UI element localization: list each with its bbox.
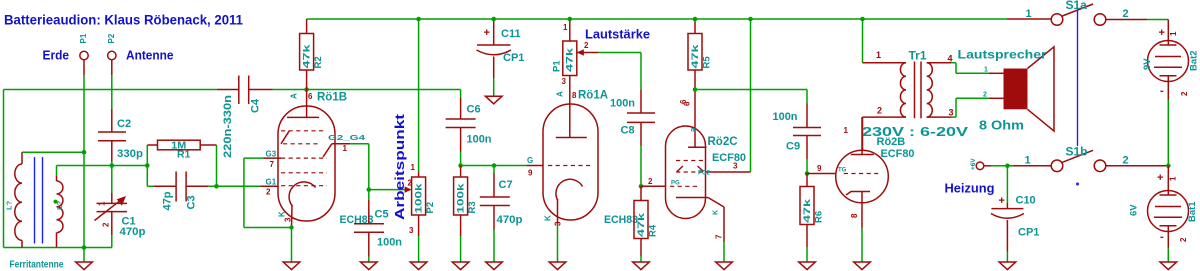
- svg-text:C5: C5: [375, 209, 389, 221]
- wire ground rail top-left: [4, 89, 217, 91]
- svg-text:1: 1: [844, 126, 849, 135]
- svg-text:7: 7: [270, 160, 275, 169]
- svg-text:K: K: [278, 211, 287, 217]
- wire Tr1 to speaker top: [951, 63, 989, 74]
- svg-text:1: 1: [876, 50, 881, 60]
- svg-text:1: 1: [1169, 176, 1178, 181]
- svg-text:7: 7: [715, 234, 724, 239]
- svg-text:3: 3: [554, 221, 563, 226]
- svg-text:1: 1: [563, 23, 568, 32]
- svg-text:K: K: [713, 210, 720, 215]
- svg-text:ECH83: ECH83: [604, 214, 638, 226]
- svg-text:S1b: S1b: [1066, 145, 1088, 159]
- svg-text:Bat2: Bat2: [1189, 50, 1200, 71]
- node junction rail/arbeitspunkt: [416, 17, 421, 22]
- svg-text:9: 9: [528, 169, 533, 178]
- node junction g2 rail: [748, 17, 753, 22]
- wire rail to Tr1: [862, 19, 864, 63]
- svg-text:1: 1: [1169, 31, 1178, 36]
- ground R4: [633, 262, 650, 270]
- node junction R1/tank: [145, 163, 150, 168]
- svg-text:100k: 100k: [456, 182, 467, 213]
- node junction wiper/C5: [367, 187, 372, 192]
- capacitor C6: [446, 98, 492, 166]
- tube Rö1A (ECH83 triode): [527, 76, 639, 263]
- svg-text:9V: 9V: [1142, 58, 1153, 70]
- node junction C6/R3: [458, 163, 463, 168]
- svg-text:A: A: [556, 91, 565, 97]
- svg-text:3: 3: [284, 217, 293, 222]
- svg-text:a: a: [689, 127, 698, 132]
- svg-text:47k: 47k: [690, 43, 701, 68]
- potentiometer P2: [405, 163, 436, 262]
- node junction R5 rail: [693, 17, 698, 22]
- svg-text:Ferritantenne: Ferritantenne: [10, 260, 64, 271]
- svg-text:G: G: [527, 156, 533, 165]
- capacitor C10: [991, 166, 1040, 262]
- wire C4 to anode node: [273, 89, 307, 91]
- svg-text:2: 2: [266, 187, 271, 196]
- wire to G1: [217, 185, 262, 187]
- ground Rö1B cathode: [283, 262, 300, 270]
- port P1 (Erde): [79, 33, 88, 75]
- transformer Tr1: [862, 49, 969, 151]
- svg-text:PG: PG: [671, 181, 680, 187]
- capacitor C4: [217, 76, 273, 159]
- ground Rö2C cathode: [716, 262, 733, 270]
- svg-text:Lautsprecher: Lautsprecher: [958, 48, 1047, 62]
- svg-text:+: +: [999, 195, 1005, 207]
- svg-text:2: 2: [877, 106, 882, 116]
- svg-text:8 Ohm: 8 Ohm: [979, 119, 1024, 133]
- switch S1a: [1007, 0, 1147, 25]
- tube Rö2B (ECF80 triode): [807, 117, 915, 262]
- svg-text:2: 2: [648, 177, 653, 186]
- svg-text:330p: 330p: [117, 148, 143, 160]
- svg-text:2: 2: [584, 41, 589, 50]
- wire anode rail to C6: [307, 89, 461, 91]
- capacitor C2: [98, 75, 143, 166]
- resistor R3: [454, 166, 478, 263]
- svg-text:C4: C4: [250, 98, 262, 113]
- ground P2: [410, 262, 427, 270]
- svg-text:+6V: +6V: [970, 158, 977, 170]
- svg-text:230V : 6-20V: 230V : 6-20V: [862, 125, 969, 139]
- svg-text:1: 1: [343, 144, 348, 153]
- node junction C2/C1: [110, 163, 115, 168]
- svg-text:CP1: CP1: [503, 52, 524, 64]
- svg-text:100n: 100n: [377, 237, 402, 249]
- svg-text:47k: 47k: [302, 43, 313, 68]
- svg-text:100n: 100n: [773, 111, 798, 123]
- node junction C3/G1 wire: [214, 184, 219, 189]
- svg-text:Antenne: Antenne: [126, 48, 174, 63]
- svg-text:C2: C2: [117, 118, 131, 130]
- svg-text:Lautstärke: Lautstärke: [585, 28, 650, 42]
- svg-text:1: 1: [1026, 8, 1032, 20]
- wire heater row: [992, 165, 1051, 167]
- svg-text:-: -: [1160, 85, 1164, 97]
- wire Tr1 to speaker bottom: [951, 98, 989, 117]
- svg-text:2: 2: [1123, 8, 1129, 20]
- node junction C10/heater: [1005, 164, 1010, 169]
- svg-text:6: 6: [679, 99, 688, 104]
- svg-text:3: 3: [562, 77, 567, 86]
- svg-text:-: -: [1160, 231, 1164, 243]
- svg-text:C6: C6: [467, 104, 481, 116]
- svg-text:Batterieaudion: Klaus Röbenack: Batterieaudion: Klaus Röbenack, 2011: [4, 13, 243, 28]
- svg-text:Bat1: Bat1: [1187, 201, 1198, 222]
- svg-text:2: 2: [1180, 91, 1189, 96]
- battery Bat1: [1129, 166, 1199, 262]
- svg-text:ECF80: ECF80: [881, 148, 915, 160]
- svg-text:G3: G3: [266, 150, 277, 159]
- wire top rail: [307, 18, 1007, 20]
- svg-text:6V: 6V: [1129, 204, 1140, 216]
- svg-text:A: A: [290, 93, 299, 99]
- svg-text:C10: C10: [1016, 195, 1036, 207]
- svg-text:100k: 100k: [414, 182, 425, 213]
- wire g2 screen vertical: [750, 19, 752, 172]
- svg-text:S1a: S1a: [1066, 0, 1088, 12]
- node junction C7: [492, 163, 497, 168]
- switch link line: [1076, 10, 1079, 186]
- svg-text:Rö1A: Rö1A: [578, 90, 608, 102]
- node junction bottom ground: [82, 245, 87, 250]
- svg-text:Heizung: Heizung: [945, 182, 995, 196]
- node junction C8/R4/g1: [639, 184, 644, 189]
- svg-text:R4: R4: [648, 224, 659, 237]
- capacitor C7: [480, 166, 523, 263]
- svg-text:Arbeitspunkt: Arbeitspunkt: [393, 113, 407, 220]
- ground R6: [799, 262, 816, 270]
- ground C10: [999, 262, 1016, 270]
- capacitor C11: [477, 19, 525, 96]
- inductor L2 right (coupling coil): [55, 166, 64, 248]
- svg-text:3: 3: [409, 226, 414, 235]
- wire Arbeitspunkt vertical: [418, 19, 420, 172]
- resistor R6: [800, 174, 825, 263]
- ground Rö1A cathode: [549, 262, 566, 270]
- svg-text:K: K: [544, 215, 553, 221]
- wire coil top left: [22, 151, 84, 153]
- node junction C9/R6/grid: [805, 171, 810, 176]
- tube Rö1B (ECH83 heptode): [261, 90, 374, 228]
- node junction C11 rail: [491, 17, 496, 22]
- inductor L2 left (ferrite antenna primary): [5, 152, 23, 247]
- svg-text:8: 8: [850, 213, 859, 218]
- speaker LS1: [958, 47, 1055, 133]
- svg-text:Rö2C: Rö2C: [708, 136, 738, 148]
- node junction Bat1/S1b: [1166, 164, 1171, 169]
- svg-text:L?: L?: [5, 200, 14, 210]
- svg-text:8: 8: [572, 91, 577, 100]
- svg-text:C7: C7: [499, 179, 513, 191]
- svg-text:C9: C9: [786, 141, 800, 153]
- svg-text:1: 1: [98, 201, 107, 206]
- ground antenna: [76, 248, 93, 270]
- capacitor C3: [147, 172, 216, 211]
- svg-text:R3: R3: [467, 201, 478, 213]
- svg-text:6: 6: [308, 92, 313, 101]
- node junction P1/coil: [82, 150, 87, 155]
- svg-text:P2: P2: [425, 202, 436, 214]
- svg-text:C8: C8: [621, 125, 635, 137]
- svg-text:100n: 100n: [467, 134, 492, 146]
- svg-text:47k: 47k: [636, 212, 647, 237]
- node junction P1 rail: [568, 17, 573, 22]
- svg-text:R5: R5: [702, 56, 713, 69]
- switch S1b: [1007, 145, 1168, 172]
- svg-text:470p: 470p: [497, 214, 523, 226]
- svg-text:CP1: CP1: [1018, 227, 1039, 239]
- svg-text:3: 3: [949, 108, 954, 118]
- node junction cathode: [289, 225, 293, 229]
- resistor R1: [147, 140, 216, 187]
- capacitor C8: [610, 90, 655, 187]
- svg-text:2: 2: [1179, 237, 1188, 242]
- node junction coil tap: [54, 200, 58, 204]
- node junction anode R2: [304, 87, 309, 92]
- wire G2G4 to operating point node: [350, 144, 405, 190]
- ground C5: [361, 262, 378, 270]
- svg-text:C11: C11: [501, 28, 521, 40]
- svg-text:G1: G1: [266, 177, 277, 186]
- svg-text:C3: C3: [186, 195, 198, 209]
- wire G3 loop: [244, 158, 292, 262]
- ground Bat1: [1160, 262, 1177, 270]
- port P2 (Antenne): [107, 33, 116, 75]
- svg-text:Tr1: Tr1: [909, 49, 927, 63]
- tube Rö2C (ECF80 pentode): [641, 90, 751, 263]
- resistor R5: [679, 19, 713, 104]
- svg-text:+: +: [1157, 172, 1163, 184]
- svg-text:1: 1: [1025, 155, 1031, 167]
- svg-text:2: 2: [1123, 155, 1129, 167]
- power +6V: [970, 158, 992, 170]
- svg-text:Rö1B: Rö1B: [317, 92, 347, 104]
- wire tank row: [57, 165, 148, 167]
- capacitor C5: [354, 190, 402, 262]
- svg-text:R6: R6: [814, 211, 825, 223]
- ground C11: [485, 96, 502, 104]
- svg-text:2: 2: [983, 92, 987, 99]
- svg-text:1: 1: [411, 163, 416, 172]
- svg-text:220n-330n: 220n-330n: [222, 95, 234, 158]
- svg-text:+: +: [484, 27, 490, 39]
- resistor R4: [634, 186, 659, 262]
- svg-text:P1: P1: [79, 33, 88, 43]
- svg-text:9: 9: [817, 164, 822, 173]
- svg-text:47p: 47p: [162, 191, 174, 210]
- wire left vertical: [3, 90, 5, 248]
- svg-text:47k: 47k: [565, 47, 576, 72]
- capacitor C9: [773, 104, 822, 174]
- svg-text:+: +: [1159, 27, 1165, 39]
- svg-text:2: 2: [102, 222, 111, 227]
- svg-text:47k: 47k: [802, 198, 813, 223]
- wire S1a to Bat2: [1147, 20, 1168, 22]
- wire Bat2 to S1b: [1167, 100, 1169, 166]
- svg-text:G2_G4: G2_G4: [328, 135, 365, 142]
- svg-text:P1: P1: [552, 60, 563, 72]
- potentiometer P1: [552, 19, 599, 86]
- svg-text:TG: TG: [838, 168, 847, 174]
- wire C6 drop: [460, 90, 462, 99]
- ferrite core: [35, 157, 43, 244]
- ground Rö2B cathode: [854, 262, 871, 270]
- svg-text:P2: P2: [107, 33, 116, 43]
- svg-text:R1: R1: [177, 149, 191, 161]
- svg-text:R2: R2: [313, 56, 324, 68]
- wire anode row to C9: [695, 90, 807, 104]
- ground C7: [486, 262, 503, 270]
- svg-text:1: 1: [984, 67, 988, 74]
- svg-text:470p: 470p: [120, 226, 146, 238]
- svg-text:100n: 100n: [610, 98, 635, 110]
- resistor R2: [300, 19, 324, 90]
- svg-text:Erde: Erde: [43, 48, 70, 63]
- battery Bat2: [1142, 20, 1200, 101]
- wire wiper to C8: [598, 53, 641, 90]
- wire bottom rail: [4, 247, 113, 249]
- svg-text:2: 2: [408, 179, 413, 188]
- svg-text:PG2: PG2: [698, 171, 711, 177]
- node junction R5/anode: [693, 87, 698, 92]
- wire Erde vertical: [83, 75, 85, 248]
- svg-text:ECF80: ECF80: [712, 152, 746, 164]
- ground R3: [452, 262, 469, 270]
- capacitor C1 (variable): [95, 166, 146, 248]
- node junction Tr1 rail: [860, 17, 865, 22]
- svg-text:3: 3: [733, 162, 738, 171]
- wire grid row Rö1A: [461, 165, 527, 167]
